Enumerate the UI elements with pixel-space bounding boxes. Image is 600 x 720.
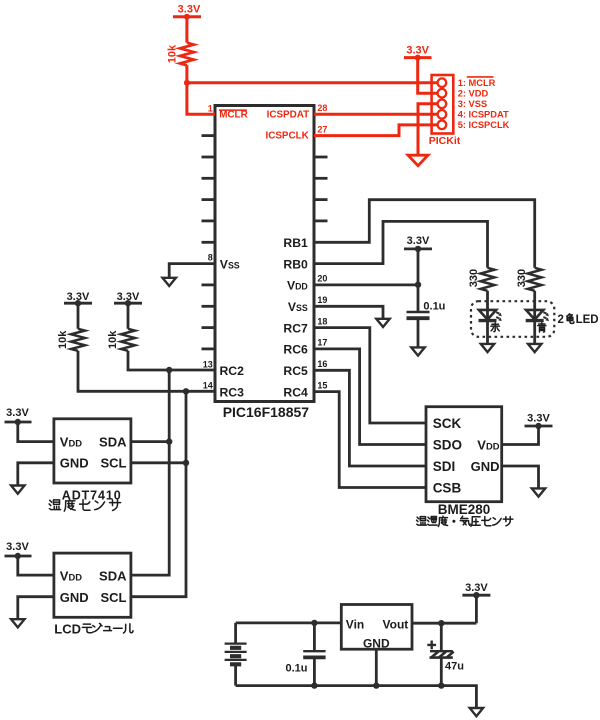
svg-text:SCL: SCL bbox=[101, 456, 127, 471]
svg-text:SDI: SDI bbox=[433, 459, 456, 474]
svg-text:RC7: RC7 bbox=[283, 321, 308, 335]
svg-text:4: ICSPDAT: 4: ICSPDAT bbox=[458, 110, 509, 120]
svg-text:CSB: CSB bbox=[433, 480, 462, 495]
svg-text:2: 2 bbox=[558, 314, 564, 326]
svg-text:0.1u: 0.1u bbox=[423, 300, 445, 312]
svg-text:19: 19 bbox=[317, 295, 327, 305]
svg-text:SCL: SCL bbox=[101, 590, 127, 605]
svg-text:13: 13 bbox=[203, 359, 213, 369]
svg-text:1: MCLR: 1: MCLR bbox=[458, 78, 496, 88]
svg-text:LED: LED bbox=[576, 314, 599, 326]
svg-text:3.3V: 3.3V bbox=[6, 407, 29, 419]
svg-text:RC4: RC4 bbox=[283, 385, 308, 399]
svg-text:RC5: RC5 bbox=[283, 364, 308, 378]
svg-text:RC3: RC3 bbox=[220, 385, 245, 399]
svg-text:3.3V: 3.3V bbox=[67, 291, 90, 303]
svg-text:SDA: SDA bbox=[99, 434, 127, 449]
svg-text:14: 14 bbox=[203, 381, 213, 391]
svg-text:10k: 10k bbox=[167, 44, 179, 63]
svg-text:28: 28 bbox=[317, 103, 327, 113]
svg-text:GND: GND bbox=[60, 456, 89, 471]
svg-text:15: 15 bbox=[317, 380, 327, 390]
svg-text:10k: 10k bbox=[57, 330, 69, 349]
svg-text:Vin: Vin bbox=[346, 617, 364, 631]
svg-text:3.3V: 3.3V bbox=[465, 582, 488, 594]
svg-text:20: 20 bbox=[317, 274, 327, 284]
svg-text:RC6: RC6 bbox=[283, 343, 308, 357]
svg-text:VSS: VSS bbox=[220, 257, 240, 271]
svg-text:VSS: VSS bbox=[288, 300, 308, 314]
svg-text:MCLR: MCLR bbox=[219, 110, 248, 121]
svg-text:GND: GND bbox=[60, 590, 89, 605]
svg-text:GND: GND bbox=[363, 637, 390, 651]
svg-text:1: 1 bbox=[208, 103, 213, 113]
svg-text:ICSPCLK: ICSPCLK bbox=[265, 131, 309, 142]
svg-text:ICSPDAT: ICSPDAT bbox=[267, 110, 310, 121]
svg-text:VDD: VDD bbox=[60, 569, 82, 584]
svg-text:3.3V: 3.3V bbox=[6, 541, 29, 553]
svg-text:3.3V: 3.3V bbox=[527, 413, 550, 425]
svg-text:0.1u: 0.1u bbox=[285, 663, 307, 675]
svg-text:47u: 47u bbox=[445, 660, 464, 672]
svg-text:PIC16F18857: PIC16F18857 bbox=[223, 404, 310, 420]
svg-text:LCD: LCD bbox=[54, 621, 81, 636]
svg-text:8: 8 bbox=[208, 252, 213, 262]
svg-text:RB0: RB0 bbox=[283, 257, 308, 271]
svg-text:5: ICSPCLK: 5: ICSPCLK bbox=[458, 120, 510, 130]
svg-text:2: VDD: 2: VDD bbox=[458, 89, 489, 99]
svg-text:BME280: BME280 bbox=[438, 502, 491, 517]
svg-text:18: 18 bbox=[317, 316, 327, 326]
svg-text:330: 330 bbox=[516, 269, 528, 287]
svg-text:VDD: VDD bbox=[287, 279, 308, 293]
svg-text:330: 330 bbox=[468, 269, 480, 287]
svg-text:SCK: SCK bbox=[433, 416, 462, 431]
svg-text:GND: GND bbox=[471, 459, 500, 474]
svg-text:27: 27 bbox=[317, 124, 327, 134]
svg-text:SDA: SDA bbox=[99, 569, 127, 584]
svg-text:3.3V: 3.3V bbox=[407, 235, 430, 247]
svg-text:3.3V: 3.3V bbox=[406, 45, 429, 57]
svg-text:10k: 10k bbox=[107, 330, 119, 349]
svg-text:17: 17 bbox=[317, 338, 327, 348]
svg-text:SDO: SDO bbox=[433, 437, 462, 452]
svg-text:RC2: RC2 bbox=[220, 364, 245, 378]
svg-text:PICKit: PICKit bbox=[429, 135, 461, 147]
svg-text:3: VSS: 3: VSS bbox=[458, 99, 487, 109]
svg-text:VDD: VDD bbox=[60, 434, 82, 449]
svg-text:3.3V: 3.3V bbox=[178, 3, 201, 15]
svg-text:16: 16 bbox=[317, 359, 327, 369]
svg-text:RB1: RB1 bbox=[283, 236, 308, 250]
svg-text:Vout: Vout bbox=[383, 617, 409, 631]
svg-text:VDD: VDD bbox=[477, 437, 499, 452]
svg-text:3.3V: 3.3V bbox=[117, 291, 140, 303]
